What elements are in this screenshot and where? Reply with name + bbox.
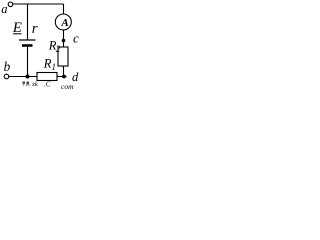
- svg-text:r: r: [32, 21, 38, 37]
- resistor R1: [37, 57, 57, 81]
- node b: [4, 59, 11, 79]
- watermark: [23, 81, 75, 92]
- ammeter A: [55, 14, 71, 30]
- svg-text:.C: .C: [44, 81, 51, 89]
- svg-text:1: 1: [52, 62, 57, 72]
- svg-text:2: 2: [56, 44, 61, 54]
- svg-text:A: A: [60, 17, 68, 29]
- wire top to battery: [27, 4, 29, 40]
- svg-text:xk: xk: [31, 81, 38, 88]
- svg-text:b: b: [4, 59, 11, 74]
- wire R2 to node d: [63, 66, 65, 77]
- wire right-down to ammeter: [63, 4, 65, 14]
- wire top: [13, 3, 64, 5]
- svg-text:c: c: [73, 31, 79, 46]
- svg-text:R: R: [43, 57, 52, 71]
- node d: [57, 70, 79, 84]
- node a: [1, 2, 13, 16]
- node c: [62, 31, 79, 46]
- junction dot battery-bottom: [26, 75, 30, 79]
- svg-text:com: com: [61, 82, 74, 90]
- wire ammeter to R2: [63, 30, 65, 47]
- wire battery to junction: [27, 47, 29, 77]
- wire bottom left: [9, 76, 37, 78]
- svg-text:a: a: [1, 2, 7, 16]
- battery E r: [12, 20, 38, 46]
- resistor R2: [48, 38, 68, 66]
